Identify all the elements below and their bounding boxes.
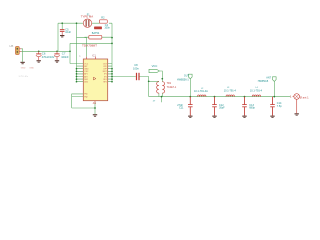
svg-text:100n: 100n [133,67,139,71]
svg-text:C6: C6 [42,52,46,56]
svg-text:C11: C11 [179,107,184,110]
svg-text:30pF: 30pF [219,107,225,110]
svg-text:TDA7088T: TDA7088T [82,44,97,48]
svg-text:BAT54: BAT54 [92,32,100,35]
svg-text:DB2: DB2 [84,82,88,84]
svg-text:OUT: OUT [184,74,190,77]
svg-text:C8: C8 [134,63,138,67]
svg-text:P$2: P$2 [84,96,87,98]
svg-text:TYPE MA: TYPE MA [81,14,93,18]
svg-text:AF2: AF2 [84,75,87,78]
svg-text:470uF/10V: 470uF/10V [42,55,55,59]
svg-text:GND: GND [29,68,34,70]
svg-text:H5: H5 [10,44,14,48]
svg-text:TC4E7-1: TC4E7-1 [167,86,177,89]
svg-text:HW556-B: HW556-B [258,80,269,83]
svg-text:7.5p: 7.5p [277,105,282,108]
svg-text:10.1-791-4A: 10.1-791-4A [194,90,208,93]
svg-text:AF1: AF1 [84,73,87,76]
svg-text:AG: AG [93,102,97,105]
svg-text:10.1-791-4: 10.1-791-4 [224,89,237,92]
svg-text:10.1-791-4: 10.1-791-4 [250,89,263,92]
svg-text:ANT: ANT [266,76,271,79]
svg-text:Ø ant 1: Ø ant 1 [300,96,309,100]
svg-text:100n: 100n [104,27,110,30]
svg-text:100nF: 100nF [61,55,69,59]
svg-text:TR1: TR1 [167,82,172,85]
svg-text:C7: C7 [62,52,66,56]
svg-text:GND: GND [21,68,26,70]
svg-text:3.7V LiPo: 3.7V LiPo [19,76,29,78]
svg-text:680p: 680p [249,107,255,110]
svg-text:RF2: RF2 [103,82,106,84]
svg-text:HWB556-1: HWB556-1 [177,78,189,81]
svg-text:IC1: IC1 [92,54,97,57]
svg-text:VCC: VCC [152,64,158,68]
svg-text:10uF: 10uF [65,31,71,34]
